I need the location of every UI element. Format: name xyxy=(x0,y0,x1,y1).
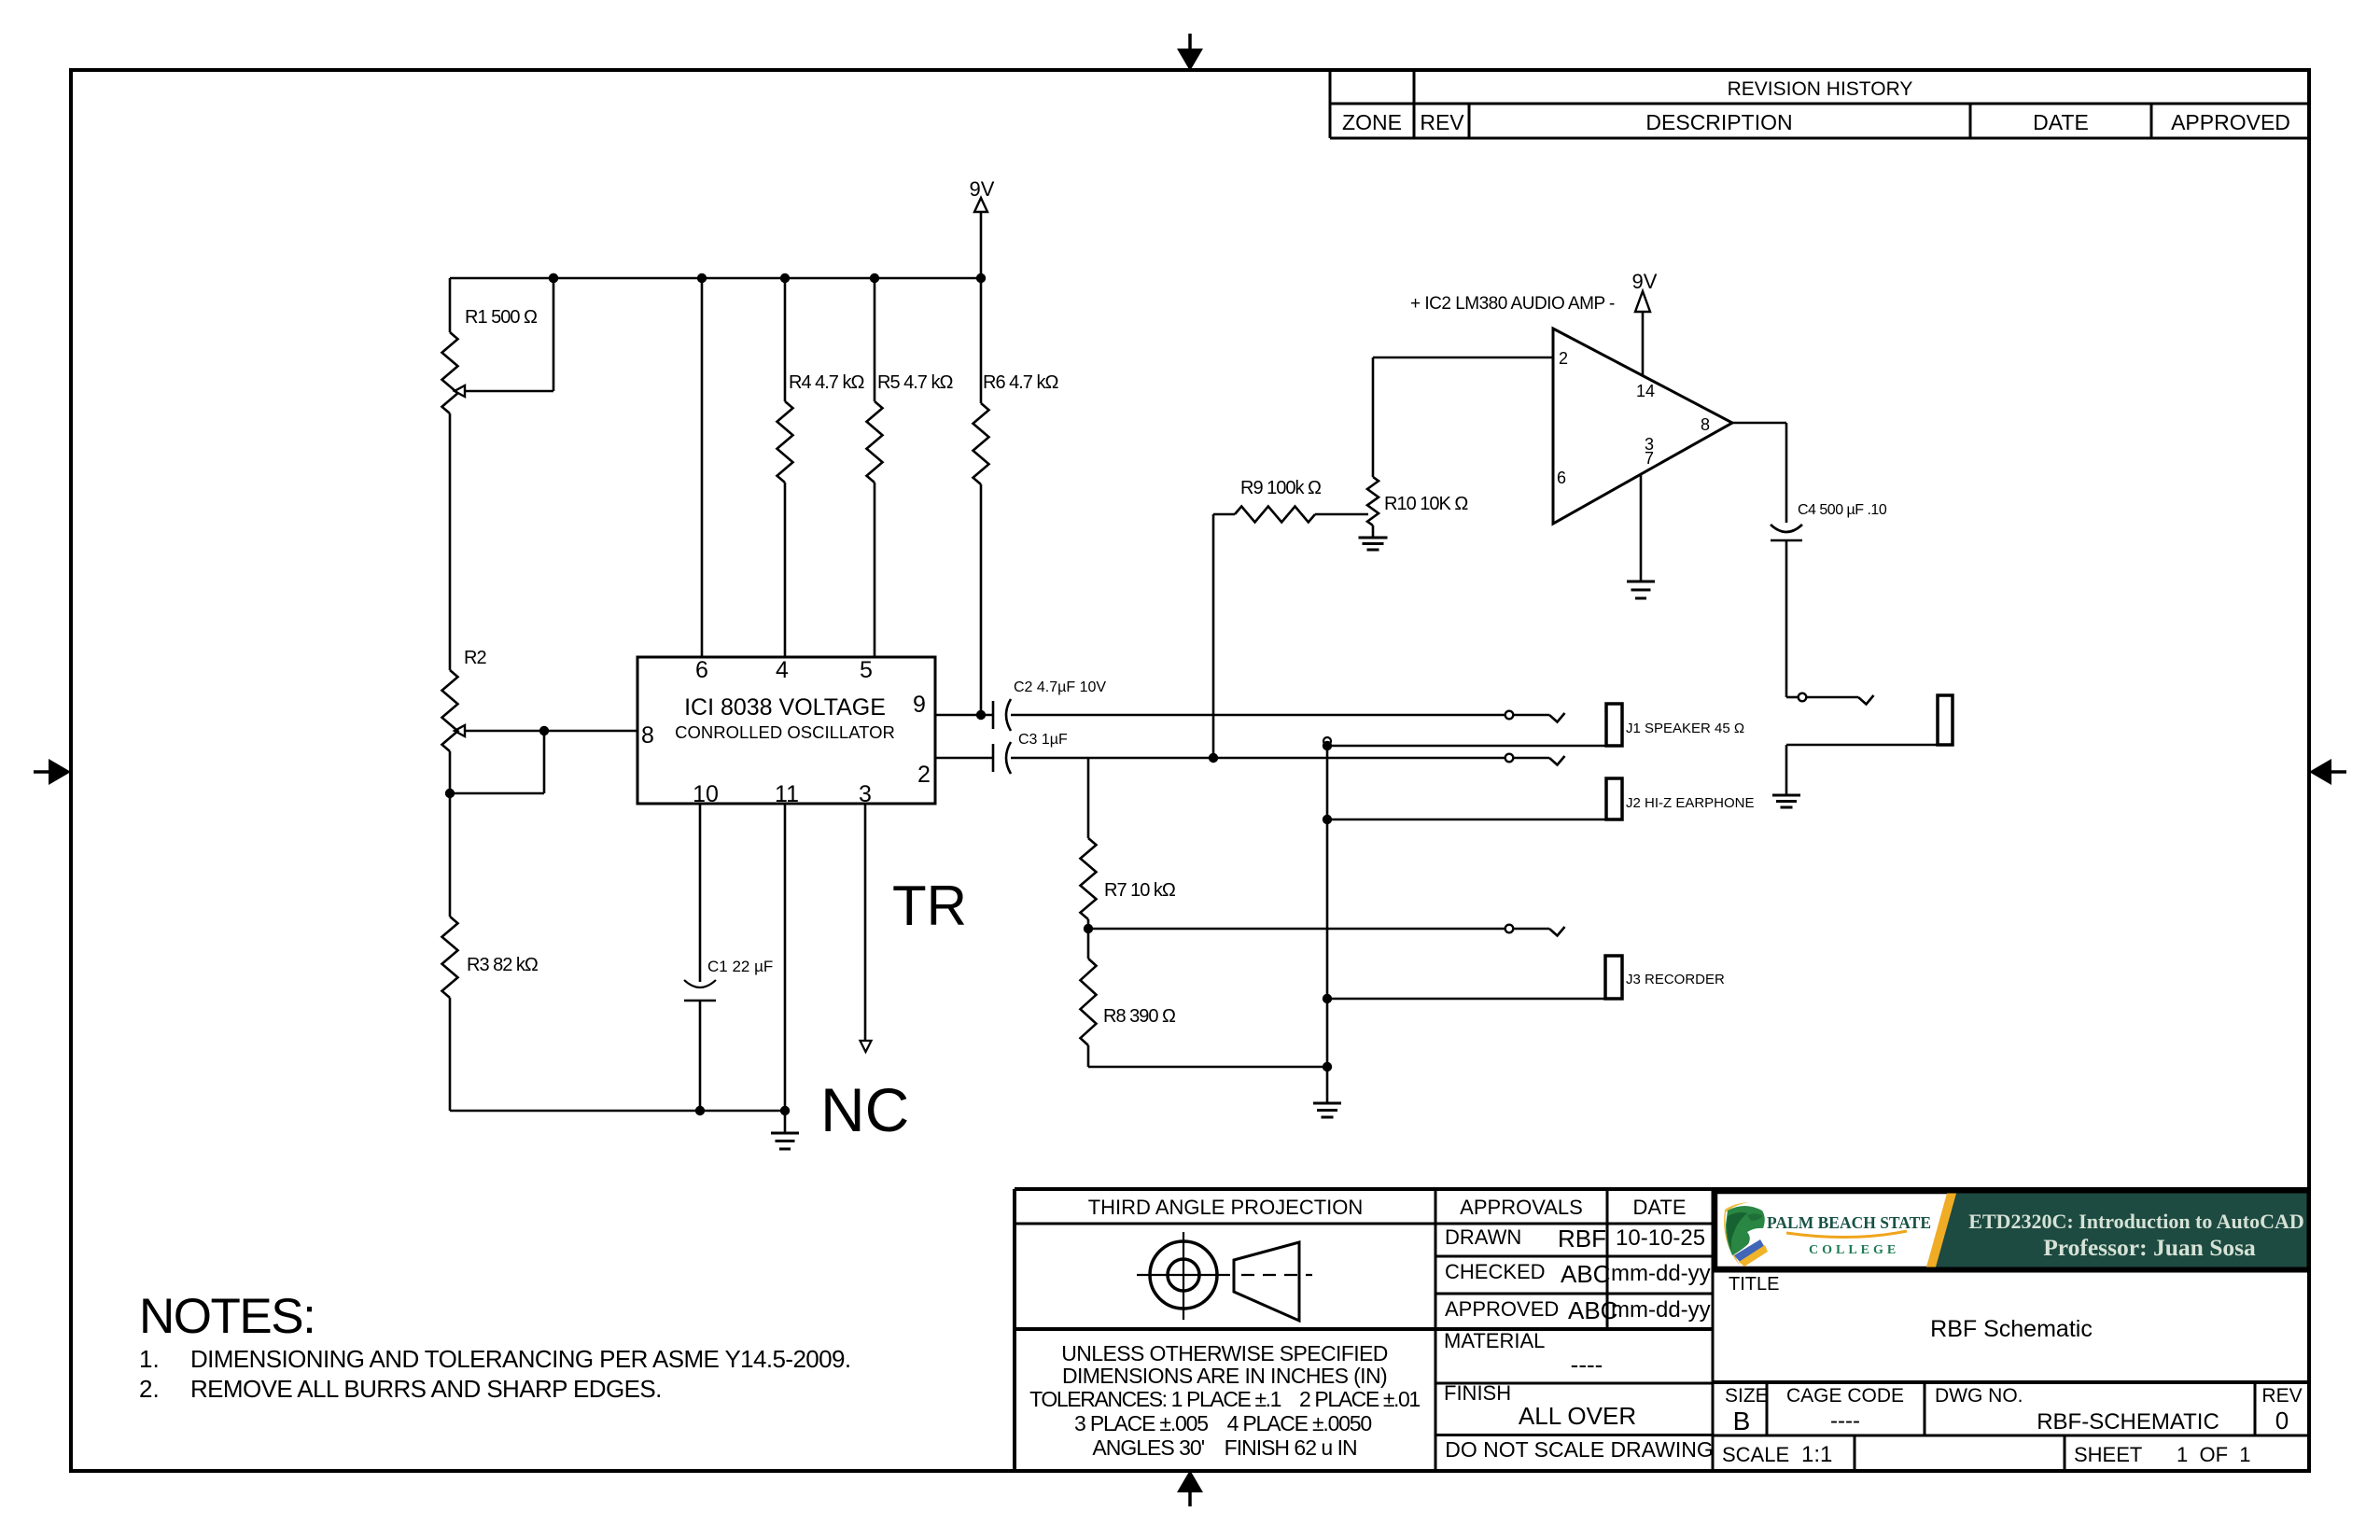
svg-text:NC: NC xyxy=(820,1075,909,1144)
svg-text:14: 14 xyxy=(1636,382,1655,400)
svg-text:11: 11 xyxy=(775,781,799,807)
svg-text:REV: REV xyxy=(1420,110,1464,134)
svg-text:DWG NO.: DWG NO. xyxy=(1935,1385,2023,1407)
svg-text:R4 4.7 kΩ: R4 4.7 kΩ xyxy=(789,372,864,393)
svg-text:mm-dd-yy: mm-dd-yy xyxy=(1611,1261,1711,1286)
svg-text:8: 8 xyxy=(641,722,654,749)
svg-text:DATE: DATE xyxy=(2033,110,2089,134)
svg-text:3 PLACE ±.005 4 PLACE ±.005: 3 PLACE ±.005 4 PLACE ±.0050 xyxy=(1074,1411,1371,1435)
svg-text:FINISH: FINISH xyxy=(1444,1381,1511,1405)
svg-text:RBF: RBF xyxy=(1558,1225,1606,1253)
svg-text:C2 4.7µF 10V: C2 4.7µF 10V xyxy=(1014,679,1106,695)
svg-text:THIRD ANGLE PROJECTION: THIRD ANGLE PROJECTION xyxy=(1088,1196,1364,1219)
svg-text:REMOVE ALL BURRS AND SHARP EDG: REMOVE ALL BURRS AND SHARP EDGES. xyxy=(190,1375,662,1403)
svg-text:B: B xyxy=(1733,1407,1751,1435)
svg-text:1 OF 1: 1 OF 1 xyxy=(2177,1443,2250,1466)
svg-text:APPROVALS: APPROVALS xyxy=(1460,1196,1583,1219)
svg-text:J3 RECORDER: J3 RECORDER xyxy=(1626,972,1725,987)
svg-text:2: 2 xyxy=(1559,349,1568,368)
svg-text:RBF Schematic: RBF Schematic xyxy=(1930,1316,2093,1342)
svg-text:1.: 1. xyxy=(139,1345,160,1373)
svg-text:5: 5 xyxy=(860,657,873,683)
svg-text:DIMENSIONING AND TOLERANCING P: DIMENSIONING AND TOLERANCING PER ASME Y1… xyxy=(190,1345,851,1373)
svg-text:8: 8 xyxy=(1701,415,1710,434)
svg-text:DO NOT SCALE DRAWING: DO NOT SCALE DRAWING xyxy=(1445,1437,1714,1462)
svg-text:DESCRIPTION: DESCRIPTION xyxy=(1645,110,1792,134)
svg-text:----: ---- xyxy=(1571,1351,1603,1379)
svg-text:REV: REV xyxy=(2261,1385,2302,1407)
svg-text:9V: 9V xyxy=(970,177,995,201)
svg-text:9V: 9V xyxy=(1632,270,1658,293)
svg-text:Professor: Juan Sosa: Professor: Juan Sosa xyxy=(2043,1234,2256,1261)
svg-text:REVISION HISTORY: REVISION HISTORY xyxy=(1728,78,1913,100)
svg-text:TOLERANCES: 1 PLACE ±.1 2 P: TOLERANCES: 1 PLACE ±.1 2 PLACE ±.01 xyxy=(1029,1387,1420,1411)
svg-text:PALM BEACH STATE: PALM BEACH STATE xyxy=(1767,1213,1931,1232)
svg-text:ANGLES 30' FINISH 62 u IN: ANGLES 30' FINISH 62 u IN xyxy=(1092,1435,1356,1460)
svg-text:RBF-SCHEMATIC: RBF-SCHEMATIC xyxy=(2037,1409,2219,1435)
svg-text:COLLEGE: COLLEGE xyxy=(1809,1243,1899,1257)
svg-text:ETD2320C: Introduction to Auto: ETD2320C: Introduction to AutoCAD xyxy=(1968,1210,2304,1233)
svg-text:R6 4.7 kΩ: R6 4.7 kΩ xyxy=(983,372,1058,393)
svg-text:R5 4.7 kΩ: R5 4.7 kΩ xyxy=(877,372,953,393)
svg-text:6: 6 xyxy=(695,657,708,683)
svg-text:R3 82 kΩ: R3 82 kΩ xyxy=(467,955,539,975)
svg-text:1:1: 1:1 xyxy=(1801,1442,1832,1467)
svg-text:10-10-25: 10-10-25 xyxy=(1616,1225,1705,1251)
svg-text:SHEET: SHEET xyxy=(2074,1443,2142,1466)
svg-text:ALL OVER: ALL OVER xyxy=(1519,1402,1636,1430)
svg-text:7: 7 xyxy=(1645,449,1654,468)
svg-text:DIMENSIONS ARE IN INCHES (IN): DIMENSIONS ARE IN INCHES (IN) xyxy=(1062,1364,1387,1388)
svg-text:CHECKED: CHECKED xyxy=(1445,1260,1546,1283)
svg-text:9: 9 xyxy=(913,692,926,718)
svg-text:CAGE CODE: CAGE CODE xyxy=(1786,1385,1904,1407)
svg-text:CONROLLED OSCILLATOR: CONROLLED OSCILLATOR xyxy=(675,722,895,742)
svg-text:R9 100k Ω: R9 100k Ω xyxy=(1240,478,1322,498)
svg-text:ICI 8038 VOLTAGE: ICI 8038 VOLTAGE xyxy=(684,694,886,721)
svg-text:APPROVED: APPROVED xyxy=(1445,1297,1559,1321)
svg-text:+ IC2 LM380 AUDIO AMP -: + IC2 LM380 AUDIO AMP - xyxy=(1410,294,1615,314)
svg-text:0: 0 xyxy=(2275,1407,2289,1435)
svg-text:R8 390 Ω: R8 390 Ω xyxy=(1103,1006,1176,1027)
svg-text:mm-dd-yy: mm-dd-yy xyxy=(1611,1297,1711,1323)
svg-text:C4 500 µF .10: C4 500 µF .10 xyxy=(1798,502,1887,518)
svg-text:2.: 2. xyxy=(139,1375,160,1403)
svg-text:R10 10K Ω: R10 10K Ω xyxy=(1384,494,1468,514)
svg-text:SIZE: SIZE xyxy=(1725,1385,1769,1407)
svg-text:TITLE: TITLE xyxy=(1729,1274,1779,1295)
svg-text:MATERIAL: MATERIAL xyxy=(1444,1329,1545,1352)
svg-text:6: 6 xyxy=(1557,469,1566,487)
svg-text:SCALE: SCALE xyxy=(1722,1443,1789,1466)
svg-text:DRAWN: DRAWN xyxy=(1445,1225,1521,1249)
svg-text:NOTES:: NOTES: xyxy=(139,1289,315,1344)
svg-text:DATE: DATE xyxy=(1632,1196,1686,1219)
svg-text:R7 10 kΩ: R7 10 kΩ xyxy=(1104,880,1176,901)
svg-text:C3 1µF: C3 1µF xyxy=(1018,732,1068,748)
svg-text:J2 HI-Z EARPHONE: J2 HI-Z EARPHONE xyxy=(1626,795,1755,811)
svg-text:APPROVED: APPROVED xyxy=(2171,110,2290,134)
svg-text:TR: TR xyxy=(892,875,967,937)
svg-text:10: 10 xyxy=(693,781,719,807)
svg-text:R1 500 Ω: R1 500 Ω xyxy=(465,307,538,328)
svg-text:ABC: ABC xyxy=(1561,1260,1610,1288)
svg-text:C1 22 µF: C1 22 µF xyxy=(707,958,773,975)
svg-text:----: ---- xyxy=(1830,1408,1860,1434)
svg-text:3: 3 xyxy=(859,781,872,807)
svg-text:UNLESS OTHERWISE SPECIFIED: UNLESS OTHERWISE SPECIFIED xyxy=(1061,1341,1388,1365)
svg-text:ZONE: ZONE xyxy=(1342,110,1402,134)
svg-text:J1 SPEAKER 45 Ω: J1 SPEAKER 45 Ω xyxy=(1626,721,1744,736)
svg-text:R2: R2 xyxy=(464,648,486,668)
svg-text:4: 4 xyxy=(776,657,789,683)
svg-text:2: 2 xyxy=(917,762,931,788)
